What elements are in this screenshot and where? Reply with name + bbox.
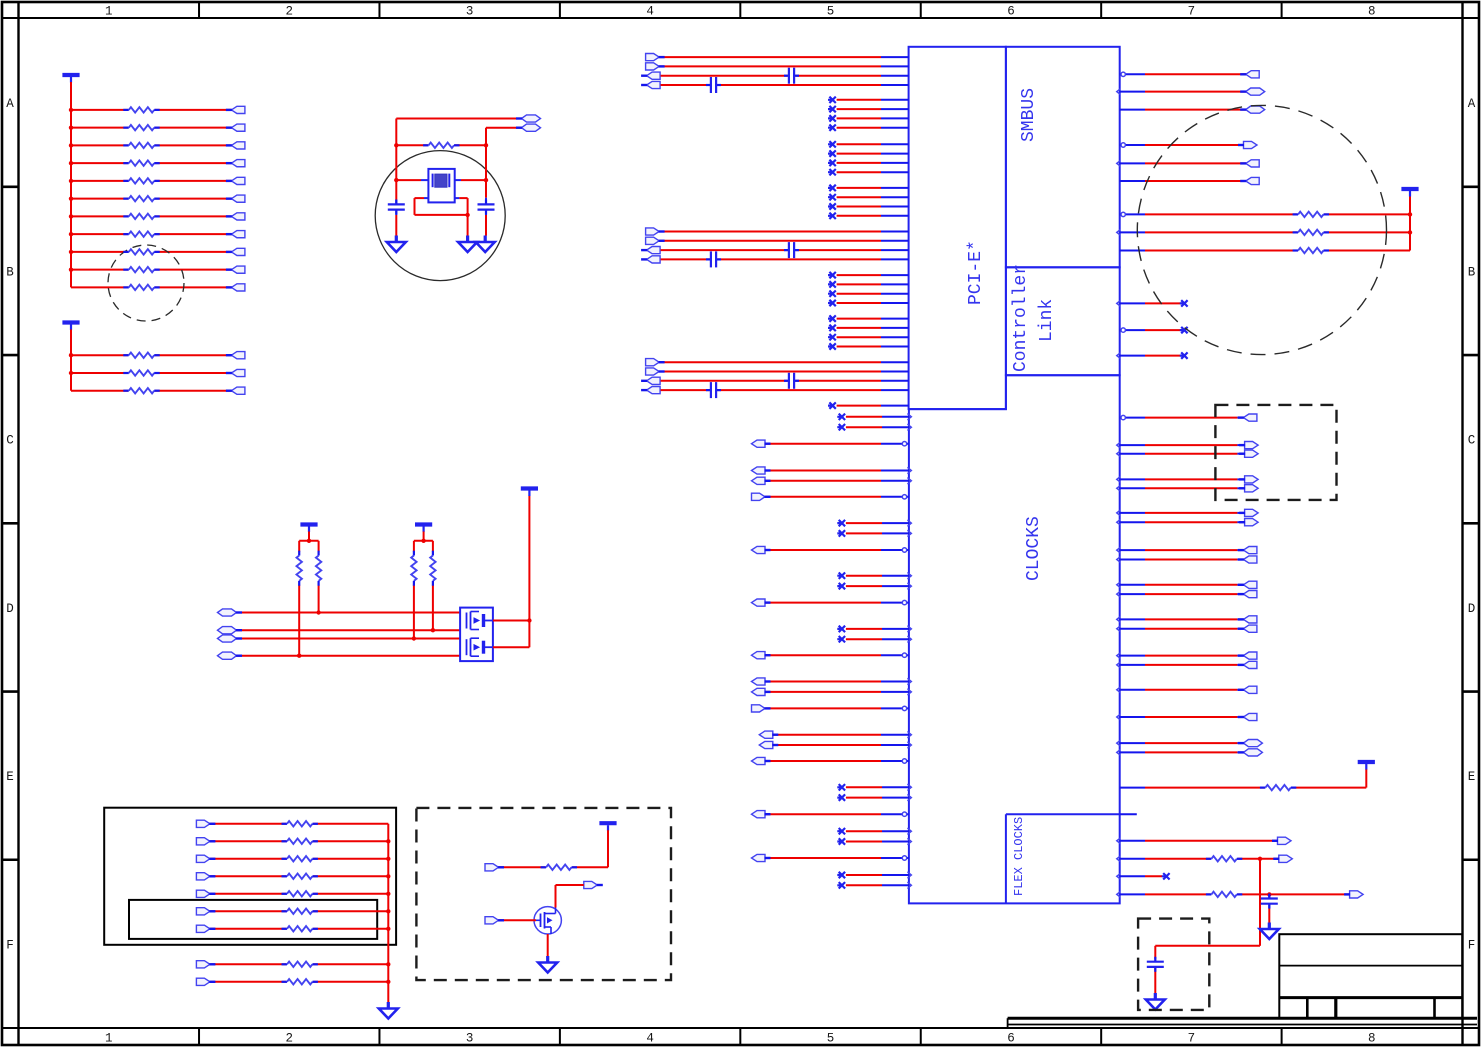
svg-text:F: F	[6, 938, 14, 952]
svg-text:8: 8	[1368, 5, 1376, 19]
svg-text:3: 3	[466, 5, 474, 19]
svg-text:B: B	[1468, 265, 1476, 279]
svg-text:FLEX CLOCKS: FLEX CLOCKS	[1012, 817, 1026, 896]
svg-text:4: 4	[646, 5, 654, 19]
svg-text:1: 1	[105, 1032, 113, 1046]
svg-text:E: E	[1468, 770, 1476, 784]
svg-text:5: 5	[827, 1032, 835, 1046]
svg-text:5: 5	[827, 5, 835, 19]
svg-text:Controller: Controller	[1011, 264, 1031, 372]
svg-text:6: 6	[1007, 5, 1015, 19]
svg-text:4: 4	[646, 1032, 654, 1046]
svg-text:PCI-E*: PCI-E*	[966, 240, 986, 305]
svg-text:A: A	[1468, 97, 1476, 111]
svg-text:7: 7	[1188, 1032, 1196, 1046]
svg-text:D: D	[1468, 602, 1476, 616]
svg-text:B: B	[6, 265, 14, 279]
svg-text:E: E	[6, 770, 14, 784]
svg-text:8: 8	[1368, 1032, 1376, 1046]
svg-text:C: C	[1468, 434, 1476, 448]
svg-text:3: 3	[466, 1032, 474, 1046]
svg-text:Link: Link	[1037, 299, 1057, 342]
svg-text:C: C	[6, 434, 14, 448]
svg-text:2: 2	[285, 5, 293, 19]
svg-text:1: 1	[105, 5, 113, 19]
svg-text:SMBUS: SMBUS	[1019, 88, 1039, 142]
svg-text:7: 7	[1188, 5, 1196, 19]
svg-text:CLOCKS: CLOCKS	[1024, 516, 1044, 581]
svg-text:6: 6	[1007, 1032, 1015, 1046]
svg-text:F: F	[1468, 938, 1476, 952]
svg-text:2: 2	[285, 1032, 293, 1046]
svg-text:A: A	[6, 97, 14, 111]
svg-text:D: D	[6, 602, 14, 616]
